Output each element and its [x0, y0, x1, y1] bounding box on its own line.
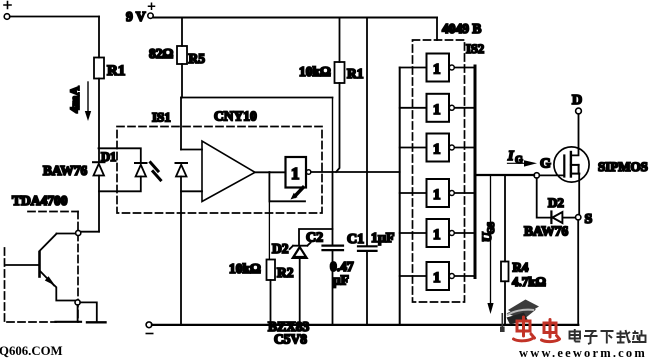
wire D2 to S node — [562, 217, 575, 219]
svg-text:IS2: IS2 — [466, 42, 484, 56]
svg-text:G: G — [540, 157, 551, 172]
wire R5 node horizontal to x=332 — [181, 97, 333, 99]
wire photodiode bottom — [181, 177, 202, 192]
wire opto output to inverter bus — [311, 171, 400, 173]
svg-text:TDA4700: TDA4700 — [12, 193, 68, 208]
light coupling arrows — [151, 163, 161, 181]
wire drain lead — [571, 114, 579, 155]
wire zener bottom lead — [299, 258, 301, 325]
resistor R2 — [229, 260, 294, 281]
wire feedback horizontal — [269, 200, 305, 202]
wire R1 bottom lead to signal line — [336, 83, 340, 172]
svg-text:μF: μF — [333, 273, 349, 288]
inverter gate 3 — [400, 134, 475, 162]
svg-text:1: 1 — [433, 142, 441, 158]
wire emitter node stub down — [77, 305, 79, 321]
svg-text:C2: C2 — [306, 231, 323, 246]
wire C1 bottom lead to rail — [366, 251, 368, 325]
inverter U1 (output stage box 1) — [286, 157, 311, 188]
svg-text:R1: R1 — [107, 63, 125, 79]
svg-text:IS1: IS1 — [152, 110, 171, 125]
svg-text:1: 1 — [433, 270, 441, 286]
annotation 4mA current arrow — [67, 82, 91, 121]
svg-text:BAW76: BAW76 — [524, 224, 569, 239]
svg-text:4049 B: 4049 B — [442, 21, 481, 36]
wire gate drive to MOSFET — [475, 174, 534, 176]
inverter gate 4 — [400, 179, 475, 207]
wire drop from R5 node into IS1 — [180, 98, 182, 150]
wire below D1 down — [98, 176, 100, 232]
inverter gate 2 — [400, 94, 475, 122]
resistor R4 — [501, 260, 546, 290]
MOSFET T1 SIPMOS — [554, 147, 589, 182]
watermark red character 1 — [514, 317, 535, 341]
svg-text:D1: D1 — [101, 150, 116, 164]
svg-text:R2: R2 — [277, 265, 294, 280]
wire C2 top lead — [332, 172, 334, 246]
svg-text:R4: R4 — [513, 260, 529, 275]
terminal 9V + — [126, 3, 155, 24]
wire photodiode branch down to ground rail — [180, 191, 182, 325]
svg-text:BAW76: BAW76 — [43, 163, 88, 178]
wire output bus — [474, 66, 477, 278]
transistor Q1 base lead — [6, 264, 40, 266]
wire LED bottom back to main — [99, 177, 141, 192]
svg-text:C1: C1 — [347, 232, 364, 247]
svg-text:4.7kΩ: 4.7kΩ — [512, 274, 546, 289]
wire feedback drop x=269 — [268, 172, 270, 201]
svg-text:1: 1 — [433, 187, 441, 203]
svg-text:SIPMOS: SIPMOS — [598, 159, 648, 174]
svg-text:C5V8: C5V8 — [274, 332, 307, 347]
svg-text:1: 1 — [433, 62, 441, 78]
svg-text:I: I — [507, 149, 514, 164]
node G — [534, 173, 539, 178]
svg-text:R1: R1 — [347, 66, 364, 81]
wire main drop to collector corner — [80, 231, 99, 233]
svg-text:D2: D2 — [272, 241, 289, 256]
svg-text:10kΩ: 10kΩ — [229, 261, 261, 276]
wire R1 bottom lead down to D1 — [98, 79, 100, 163]
wire gate node down for D2 — [537, 178, 551, 218]
zener diode D2 BZX83 — [290, 243, 311, 259]
inverter block IS2 dashed box — [413, 40, 465, 302]
inverter gate 6 — [400, 262, 475, 290]
wire R4 bottom lead — [504, 281, 506, 325]
transistor Q1 — [40, 234, 57, 286]
svg-text:G: G — [515, 155, 523, 166]
svg-text:1: 1 — [433, 102, 441, 118]
svg-text:D: D — [572, 93, 582, 108]
LED of optocoupler — [135, 163, 147, 177]
watermark eeworm logo graduation cap — [500, 300, 539, 333]
wire R4 top lead — [504, 175, 506, 262]
node emitter pin — [75, 300, 80, 305]
wire collector to node — [57, 233, 81, 235]
wire source down to rail — [577, 220, 579, 325]
wire input bus — [399, 68, 401, 326]
wire C2 bottom lead — [332, 250, 334, 325]
capacitor C2 — [306, 231, 354, 288]
wire zener branch horizontal — [299, 229, 333, 245]
diode D1 BAW76 — [93, 162, 105, 175]
open-collector arrow mark — [291, 188, 304, 200]
annotation UGS voltage arrow — [479, 175, 496, 314]
wire source lead down to S node — [578, 174, 580, 215]
svg-text:9 V: 9 V — [126, 9, 146, 24]
optocoupler IS1 dashed box — [117, 127, 322, 214]
wire down to R2 — [268, 201, 270, 259]
svg-text:D2: D2 — [548, 195, 564, 210]
wire top-left horizontal to R1 — [10, 16, 99, 18]
svg-text:10kΩ: 10kΩ — [299, 64, 331, 79]
svg-text:4mA: 4mA — [67, 86, 82, 113]
TDA4700 dashed box — [5, 212, 79, 323]
svg-text:R5: R5 — [189, 51, 206, 66]
wire LED branch top — [99, 148, 141, 162]
svg-text:1: 1 — [433, 227, 441, 243]
resistor R5 — [149, 46, 205, 66]
svg-text:GS: GS — [486, 222, 496, 234]
svg-text:1: 1 — [291, 164, 300, 183]
node collector pin — [76, 230, 81, 235]
wire C1 top lead from rail — [366, 18, 368, 247]
wire drop from R5 horizontal to signal line — [332, 98, 334, 173]
terminal - (bottom) — [146, 322, 153, 334]
svg-text:www.eeworm.com: www.eeworm.com — [519, 346, 647, 359]
svg-text:1μF: 1μF — [371, 231, 395, 246]
wire photodiode branch top — [181, 149, 202, 151]
node S — [576, 215, 581, 220]
wire R3 top lead from rail — [339, 18, 341, 63]
wire R5 bottom lead — [181, 64, 183, 98]
inverter gate 5 — [400, 219, 475, 247]
svg-text:CNY10: CNY10 — [214, 109, 257, 124]
watermark text dianzi xiazaizhan — [570, 329, 646, 344]
wire emitter to node — [55, 286, 76, 301]
wire ground rail — [152, 324, 578, 326]
wire supply feed into IS2 — [436, 18, 438, 41]
svg-text:Q606.COM: Q606.COM — [0, 344, 63, 358]
wire emitter node right and down — [80, 302, 97, 320]
capacitor C1 — [347, 231, 395, 251]
inverter gate 1 — [400, 54, 475, 82]
ground bar left — [56, 321, 82, 323]
diode D2 BAW76 — [551, 212, 562, 224]
svg-text:S: S — [585, 212, 593, 227]
wire R5 top lead — [181, 18, 183, 47]
wire 9V supply rail — [153, 17, 437, 19]
wire G node to gate bar — [539, 174, 564, 176]
watermark red character 2 — [542, 320, 560, 342]
resistor R1 (10k pull-up) — [299, 62, 364, 83]
op-amp triangle of optocoupler — [202, 141, 255, 202]
wire R1 top lead — [98, 17, 100, 58]
ground bar right — [87, 321, 106, 323]
wire amp output — [255, 171, 286, 173]
resistor R1 — [94, 58, 125, 80]
terminal + (top-left) — [4, 2, 11, 20]
terminal D — [572, 93, 582, 114]
annotation Ic current arrow — [507, 149, 537, 167]
svg-text:82Ω: 82Ω — [149, 46, 174, 61]
wire R2 bottom lead — [270, 280, 272, 325]
photodiode of optocoupler — [176, 163, 188, 177]
